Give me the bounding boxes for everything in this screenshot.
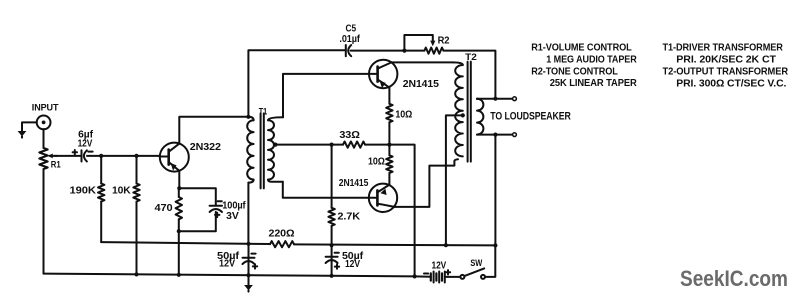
svg-text:T2-OUTPUT TRANSFORMER: T2-OUTPUT TRANSFORMER bbox=[663, 66, 789, 77]
wire Q3 collector to T2 primary bottom bbox=[395, 159, 458, 207]
wire R1 wiper to C6µf bbox=[55, 155, 82, 157]
node mid bus right end bbox=[493, 243, 497, 247]
input ground bbox=[18, 131, 27, 138]
wire 100µf bottom loop to 470 bbox=[179, 212, 216, 231]
svg-text:3V: 3V bbox=[226, 211, 239, 222]
node R2 left bbox=[402, 49, 406, 53]
svg-text:T2: T2 bbox=[465, 51, 477, 62]
mid bus wire bbox=[101, 242, 270, 244]
wire T1 top to C5 rail bbox=[248, 50, 345, 117]
node speaker top bbox=[493, 97, 497, 101]
svg-text:12V: 12V bbox=[219, 259, 236, 270]
wire Q1 emitter down bbox=[178, 171, 180, 188]
wire 33Ω to 10Ω node bbox=[365, 145, 415, 277]
wire emitter to 100µf bbox=[179, 188, 216, 205]
svg-text:12V: 12V bbox=[78, 138, 93, 149]
wire T1 primary bottom to mid bus bbox=[247, 183, 249, 245]
resistor 470 bbox=[155, 188, 183, 231]
node Q1 emitter bbox=[177, 186, 181, 190]
svg-text:10Ω: 10Ω bbox=[368, 157, 385, 168]
T1 secondary winding bbox=[268, 117, 283, 182]
mid bus wire right bbox=[294, 244, 495, 245]
input jack J1 bbox=[32, 102, 59, 129]
svg-text:10Ω: 10Ω bbox=[395, 109, 412, 120]
wire Q1 collector up and to T1 bbox=[179, 117, 248, 144]
svg-text:2N322: 2N322 bbox=[190, 142, 221, 153]
node T1 primary top bbox=[246, 115, 250, 119]
resistor 10Ω lower bbox=[368, 145, 393, 185]
speaker terminal top bbox=[513, 97, 517, 101]
node bottom bus at 414 bbox=[413, 274, 417, 278]
svg-text:R2-TONE CONTROL: R2-TONE CONTROL bbox=[531, 66, 618, 77]
T2 core bbox=[468, 62, 471, 162]
node 190K top bbox=[99, 154, 103, 158]
svg-text:PRI. 300Ω CT/SEC V.C.: PRI. 300Ω CT/SEC V.C. bbox=[676, 78, 786, 89]
node 50µf left bottom bbox=[246, 273, 250, 277]
wire 470 node to bottom bus bbox=[178, 231, 180, 275]
wire T1 secondary bottom to Q3 base bbox=[283, 182, 369, 198]
node T1 center tap bbox=[273, 143, 277, 147]
T2 center tap bbox=[446, 113, 465, 245]
resistor 33Ω bbox=[339, 130, 365, 148]
svg-text:INPUT: INPUT bbox=[32, 102, 59, 113]
svg-text:12V: 12V bbox=[432, 260, 447, 271]
svg-text:SW: SW bbox=[470, 258, 483, 269]
legend T1 line2 bbox=[676, 54, 776, 65]
svg-text:10K: 10K bbox=[112, 185, 132, 196]
legend R1 bbox=[531, 42, 632, 53]
svg-text:33Ω: 33Ω bbox=[339, 130, 359, 141]
legend T2 bbox=[663, 66, 789, 77]
node 470 line at bottom bus bbox=[177, 273, 181, 277]
svg-text:R1: R1 bbox=[51, 159, 61, 170]
svg-text:T1-DRIVER TRANSFORMER: T1-DRIVER TRANSFORMER bbox=[663, 42, 784, 53]
T2 secondary winding bbox=[477, 99, 483, 135]
svg-text:2.7K: 2.7K bbox=[337, 211, 360, 222]
rheostat loop R2 bbox=[404, 35, 435, 51]
label to loudspeaker bbox=[490, 110, 571, 122]
resistor 220Ω bbox=[269, 228, 295, 247]
T2 primary winding bbox=[453, 62, 463, 156]
main ground stem bbox=[248, 275, 250, 285]
wire jack to input ground bbox=[22, 122, 37, 131]
capacitor 50µf 12V left bbox=[217, 244, 257, 275]
node mid bus T2 tap bbox=[444, 243, 448, 247]
legend T2 line2 bbox=[676, 78, 786, 89]
resistor 2.7K bbox=[328, 208, 360, 245]
capacitor 50µf 12V right bbox=[326, 245, 364, 276]
watermark SeekIC.com bbox=[680, 266, 788, 291]
svg-text:2N1415: 2N1415 bbox=[339, 178, 369, 189]
wire 33Ω left down bbox=[331, 145, 333, 208]
svg-text:TO LOUDSPEAKER: TO LOUDSPEAKER bbox=[490, 110, 571, 122]
svg-text:SeekIC.com: SeekIC.com bbox=[680, 266, 788, 291]
wire speaker bottom bbox=[477, 134, 513, 136]
resistor R2 bbox=[424, 35, 449, 53]
wire Q2 collector to T2 bbox=[391, 61, 452, 63]
resistor 190K bbox=[70, 156, 105, 242]
legend T1 bbox=[663, 42, 784, 53]
bottom bus to battery bbox=[415, 275, 431, 277]
node 10K top bbox=[134, 154, 138, 158]
wire speaker top bbox=[477, 98, 513, 100]
wire R1 bottom to bottom bus bbox=[43, 169, 45, 274]
svg-text:R1-VOLUME CONTROL: R1-VOLUME CONTROL bbox=[531, 42, 632, 53]
legend R2 bbox=[531, 66, 618, 77]
wire T1 secondary top to Q2 base bbox=[283, 74, 369, 117]
node 10Ω junction bbox=[387, 143, 391, 147]
wire R2 to speaker line bbox=[443, 51, 495, 99]
svg-text:25K LINEAR TAPER: 25K LINEAR TAPER bbox=[550, 78, 637, 89]
battery 12V bbox=[424, 260, 450, 282]
potentiometer R1 bbox=[39, 148, 61, 170]
wire speaker node down bbox=[494, 135, 496, 246]
T1 core bbox=[261, 113, 264, 188]
svg-text:12V: 12V bbox=[345, 259, 360, 270]
wire switch to bus corner bbox=[485, 245, 495, 277]
bottom bus wire bbox=[44, 274, 415, 277]
wire T1 center tap to 33Ω bbox=[274, 144, 343, 146]
switch SW bbox=[460, 258, 485, 279]
legend R1 line2 bbox=[546, 54, 637, 65]
svg-text:PRI. 20K/SEC 2K CT: PRI. 20K/SEC 2K CT bbox=[676, 54, 776, 65]
svg-text:2N1415: 2N1415 bbox=[403, 79, 439, 90]
transistor Q1 2N322 bbox=[160, 142, 221, 172]
resistor 10Ω upper bbox=[386, 104, 412, 145]
svg-text:190K: 190K bbox=[70, 185, 97, 196]
T1 primary winding bbox=[247, 117, 253, 183]
node speaker bottom bbox=[493, 133, 497, 137]
transformer T1 label bbox=[259, 106, 267, 117]
svg-text:470: 470 bbox=[155, 203, 173, 214]
svg-text:100µf: 100µf bbox=[222, 200, 246, 211]
node 2.7K bottom bbox=[330, 243, 334, 247]
svg-text:R2: R2 bbox=[438, 35, 450, 46]
transformer T2 label bbox=[465, 51, 477, 62]
capacitor 100µf 3V bbox=[210, 200, 247, 222]
node 33Ω left bbox=[330, 143, 334, 147]
svg-text:1 MEG AUDIO TAPER: 1 MEG AUDIO TAPER bbox=[546, 54, 637, 65]
node 10K bottom bbox=[134, 272, 138, 276]
svg-text:C5: C5 bbox=[346, 23, 357, 34]
capacitor C5 .01µf bbox=[339, 23, 360, 56]
wire battery to switch bbox=[445, 276, 461, 278]
node 50µf right bottom bbox=[330, 274, 334, 278]
legend R2 line2 bbox=[550, 78, 637, 89]
capacitor 6µf 12V bbox=[73, 129, 94, 161]
resistor 10K bbox=[112, 156, 140, 275]
speaker terminal bottom bbox=[513, 133, 517, 137]
node 470 bottom bbox=[177, 229, 181, 233]
wire C5 to R2 bbox=[351, 50, 425, 52]
svg-text:.01µf: .01µf bbox=[339, 34, 360, 45]
node mid bus at 50µf left bbox=[246, 242, 250, 246]
svg-text:220Ω: 220Ω bbox=[269, 228, 295, 239]
transistor Q3 2N1415 bbox=[339, 178, 397, 212]
wire 6µf to 2N322 base bbox=[87, 155, 160, 157]
wire jack to R1 bbox=[43, 129, 45, 148]
main ground bbox=[244, 285, 253, 292]
transistor Q2 2N1415 bbox=[369, 60, 439, 90]
wire Q2 emitter to 10Ω bbox=[388, 88, 390, 104]
